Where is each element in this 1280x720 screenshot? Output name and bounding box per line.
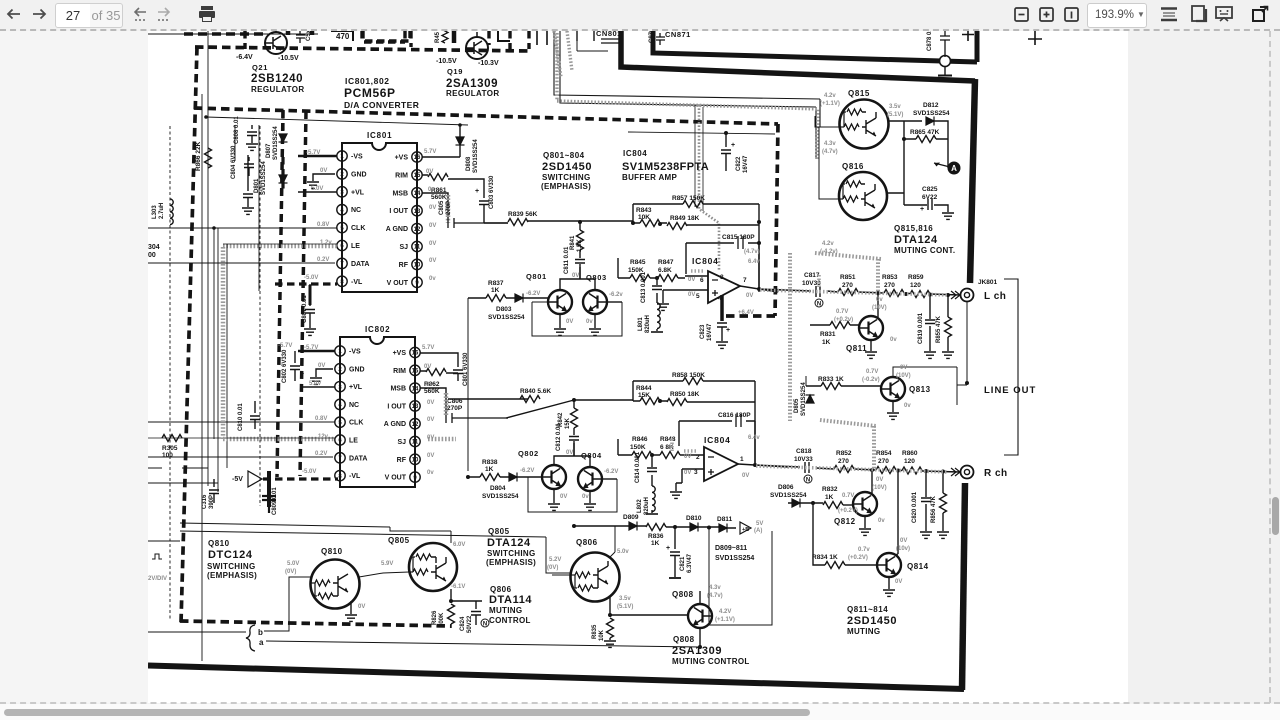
svg-text:-5.7V: -5.7V <box>278 343 292 349</box>
inner dashed vertical V1 <box>277 110 283 477</box>
emitter grounds <box>554 488 590 503</box>
routing box <box>528 477 617 512</box>
resistor R834 + base wire <box>825 562 845 569</box>
svg-text:(A): (A) <box>754 528 762 534</box>
capacitor C807 <box>305 284 315 328</box>
svg-text:1K: 1K <box>651 540 660 547</box>
svg-text:Q21: Q21 <box>252 63 268 72</box>
svg-text:(+1.1V): (+1.1V) <box>715 617 735 623</box>
resistor R839 56K <box>508 219 528 226</box>
transistor Q814 <box>877 553 901 577</box>
C814 column lower amp <box>651 455 653 513</box>
svg-text:5.2V: 5.2V <box>549 557 561 563</box>
transistor Q21 <box>265 29 287 54</box>
IC802 body <box>340 337 415 487</box>
C820 column <box>925 471 927 531</box>
D807 dashed column <box>281 111 284 191</box>
svg-text:-5.7V: -5.7V <box>304 345 318 351</box>
diode D803 <box>515 294 523 303</box>
pins IC802 <box>335 346 420 483</box>
svg-text:CLK: CLK <box>349 420 363 427</box>
resistor R844 <box>640 398 660 405</box>
svg-text:C825: C825 <box>922 186 938 193</box>
svg-text:3: 3 <box>694 469 698 476</box>
svg-text:-10.3V: -10.3V <box>478 60 499 67</box>
svg-text:0v: 0v <box>890 337 897 343</box>
node N <box>481 619 489 627</box>
svg-text:R866 22K: R866 22K <box>195 141 202 171</box>
R858 feedback wire lower <box>633 381 755 463</box>
connector JK801 L ch <box>961 289 974 302</box>
svg-text:R845: R845 <box>630 259 646 266</box>
svg-text:SVD1SS254: SVD1SS254 <box>482 493 519 500</box>
svg-text:MUTING CONT.: MUTING CONT. <box>894 246 955 255</box>
svg-text:0V: 0V <box>566 450 573 456</box>
input wires lower <box>676 455 704 491</box>
svg-text:5: 5 <box>696 293 700 300</box>
svg-text:3.5v: 3.5v <box>889 104 901 110</box>
svg-text:R841: R841 <box>570 235 576 250</box>
svg-text:DATA: DATA <box>351 261 369 268</box>
wire pin8 area <box>262 478 269 480</box>
diode D811 <box>719 524 727 533</box>
wire D812 to R865 column <box>904 121 948 168</box>
ground plus input <box>657 304 669 310</box>
svg-text:R839 56K: R839 56K <box>508 211 538 218</box>
svg-text:BUFFER AMP: BUFFER AMP <box>622 173 678 182</box>
svg-text:D806: D806 <box>778 484 794 491</box>
svg-text:N: N <box>817 302 821 308</box>
svg-text:6.4v: 6.4v <box>748 435 760 441</box>
svg-text:0v: 0v <box>904 403 911 409</box>
nested thin corner lines top center <box>554 31 820 159</box>
dual page icon <box>1192 6 1206 21</box>
svg-text:(4.7v): (4.7v) <box>744 249 760 255</box>
hatch at C805 <box>446 195 451 223</box>
svg-text:+: + <box>920 206 924 213</box>
svg-text:R855 47K: R855 47K <box>936 315 942 343</box>
right dashed border of shield going down and closing left <box>722 124 778 316</box>
svg-text:Q802: Q802 <box>518 449 539 458</box>
svg-text:Q811: Q811 <box>846 344 867 353</box>
resistor R846 <box>632 452 652 459</box>
svg-text:0.7v: 0.7v <box>858 547 870 553</box>
svg-text:R859: R859 <box>908 274 924 281</box>
svg-text:SVD1SS254: SVD1SS254 <box>913 110 950 117</box>
svg-text:RIM: RIM <box>393 368 406 375</box>
Q811 emitter ground <box>870 339 872 351</box>
digital transistor Q805 <box>409 543 457 591</box>
svg-text:a: a <box>259 638 264 647</box>
svg-text:0V: 0V <box>429 205 436 211</box>
resistor R866 22K vertical <box>205 148 212 168</box>
svg-text:0V: 0V <box>358 604 365 610</box>
capacitor C822 <box>721 133 731 171</box>
svg-text:GND: GND <box>351 171 367 178</box>
right border upper segment <box>970 79 975 283</box>
top dashed line 2 (shield top of D/A section) <box>194 108 778 124</box>
op-amp U-IC804a triangle <box>708 271 740 303</box>
svg-text:+: + <box>726 327 730 334</box>
wire pin16 +VS <box>422 156 460 158</box>
ground R835 <box>604 641 616 647</box>
collector rail <box>560 267 595 290</box>
voltage annotations (faint print) <box>278 93 911 623</box>
transistor Q802 <box>542 465 566 489</box>
svg-text:SVD1SS254: SVD1SS254 <box>473 139 479 173</box>
svg-text:+VL: +VL <box>351 189 365 196</box>
top dashed line 1 (regulator rail) <box>195 47 531 51</box>
svg-text:10K: 10K <box>638 214 650 221</box>
svg-text:1K: 1K <box>485 466 494 473</box>
svg-text:270: 270 <box>884 282 895 289</box>
svg-text:D809~811: D809~811 <box>715 545 747 552</box>
capacitor C814 <box>647 468 657 472</box>
wire pin15 RIM + resistor R862 <box>420 371 458 373</box>
svg-text:120: 120 <box>910 282 921 289</box>
svg-text:5: 5 <box>338 420 342 426</box>
svg-text:0v: 0v <box>586 319 593 325</box>
b wire <box>266 630 289 632</box>
Q806 emitter chain <box>610 597 689 617</box>
Q805 emitter chain <box>451 589 482 603</box>
svg-text:4.3v: 4.3v <box>709 585 721 591</box>
svg-text:R838: R838 <box>482 459 498 466</box>
svg-text:0V: 0V <box>746 293 753 299</box>
svg-text:6.8K: 6.8K <box>658 267 672 274</box>
ground L801 <box>651 331 663 333</box>
output wire Q815 <box>888 121 922 205</box>
R842 column <box>573 400 575 456</box>
svg-text:0V: 0V <box>429 241 436 247</box>
Q810 collector to Q805 base <box>359 572 409 577</box>
capacitor C805 series <box>448 218 508 228</box>
svg-text:Q806: Q806 <box>576 538 598 547</box>
thick dashed jog to IC802 pin8 <box>263 477 338 480</box>
svg-text:0V: 0V <box>560 494 567 500</box>
svg-text:C801 6V330: C801 6V330 <box>463 352 469 386</box>
svg-text:16V47: 16V47 <box>707 323 713 341</box>
hatch stub above C817 <box>817 275 821 289</box>
svg-text:R849 18K: R849 18K <box>670 215 700 222</box>
svg-text:L801: L801 <box>638 317 644 331</box>
svg-text:+B: +B <box>742 527 749 533</box>
svg-text:-VL: -VL <box>349 473 361 480</box>
svg-text:0v: 0v <box>428 187 435 193</box>
svg-text:5.0V: 5.0V <box>311 186 323 192</box>
transistor Q812 <box>853 492 877 516</box>
svg-text:SWITCHING: SWITCHING <box>207 562 255 571</box>
wire pin13 I OUT lower <box>420 388 446 413</box>
svg-text:0V: 0V <box>572 273 579 279</box>
svg-text:6.0V: 6.0V <box>453 542 465 548</box>
svg-text:4.2v: 4.2v <box>824 93 836 99</box>
C822 junction <box>724 131 728 135</box>
svg-text:+: + <box>666 545 670 552</box>
svg-text:16: 16 <box>414 155 421 161</box>
svg-text:A GND: A GND <box>384 421 406 428</box>
diode D801 <box>279 175 288 183</box>
svg-text:15K: 15K <box>638 392 650 399</box>
svg-text:-VL: -VL <box>351 279 363 286</box>
transistor Q804 <box>578 467 602 491</box>
zoom in <box>1040 8 1053 21</box>
transistor Q808 <box>688 604 712 628</box>
svg-text:R850 18K: R850 18K <box>670 391 700 398</box>
svg-text:C876 0.01: C876 0.01 <box>649 31 655 43</box>
svg-text:1: 1 <box>340 154 344 160</box>
svg-text:R45 1: R45 1 <box>435 31 441 43</box>
routing box <box>532 302 622 336</box>
capacitor C876 <box>656 33 665 45</box>
node N circle <box>804 475 812 483</box>
wire pin16 +VS right <box>420 353 458 361</box>
right border lower segment <box>962 483 965 690</box>
svg-text:R840 5.6K: R840 5.6K <box>520 388 551 395</box>
svg-text:C819 0.001: C819 0.001 <box>918 312 924 344</box>
wire pin1 -VS thick + C802 <box>298 350 335 353</box>
ground C821 <box>669 577 681 579</box>
output wire lower <box>738 421 788 467</box>
cap stub top right 1 <box>1028 31 1042 45</box>
output wire Q816 to C825 <box>887 193 948 212</box>
hatch stub left of minus input upper <box>691 269 703 273</box>
hatch overlay on R ch wire <box>756 466 948 472</box>
svg-text:1: 1 <box>740 456 744 463</box>
svg-text:LE: LE <box>349 438 358 445</box>
Q813 collector to line out <box>893 367 967 405</box>
svg-text:6V22: 6V22 <box>922 194 938 201</box>
capacitor C878 <box>940 31 950 57</box>
svg-text:(+0.2V): (+0.2V) <box>848 555 868 561</box>
svg-text:SJ: SJ <box>399 244 408 251</box>
svg-text:12v: 12v <box>318 434 329 440</box>
svg-text:270: 270 <box>878 458 889 465</box>
svg-text:(5.1V): (5.1V) <box>617 604 633 610</box>
svg-text:6: 6 <box>700 277 704 284</box>
svg-text:C804 6V330: C804 6V330 <box>231 145 237 179</box>
svg-text:DTA114: DTA114 <box>489 594 532 606</box>
svg-text:6.3V47: 6.3V47 <box>687 553 693 573</box>
left vertical bus wires <box>202 31 259 661</box>
svg-text:D803: D803 <box>496 306 512 313</box>
resistor R860 <box>902 467 922 474</box>
Q813 <box>881 377 905 401</box>
waveform mark <box>152 554 162 559</box>
svg-text:0V: 0V <box>318 363 325 369</box>
svg-text:C811 0.01: C811 0.01 <box>564 246 570 274</box>
ground pin2 <box>307 182 319 188</box>
svg-text:4.2v: 4.2v <box>822 241 834 247</box>
pin numbers lower op-amp <box>694 454 744 476</box>
junction <box>870 468 874 472</box>
svg-text:0v: 0v <box>582 494 589 500</box>
wire R845 R847 <box>618 258 685 278</box>
junction left <box>572 524 576 528</box>
svg-text:12: 12 <box>412 422 419 428</box>
svg-text:R832: R832 <box>822 486 838 493</box>
svg-text:+VL: +VL <box>349 384 363 391</box>
svg-text:4: 4 <box>338 403 342 409</box>
history back <box>135 8 146 16</box>
wire pin3 +VL <box>298 191 337 193</box>
label block Q815,816 <box>894 224 955 255</box>
main wire L ch <box>759 289 960 295</box>
junction <box>902 137 906 141</box>
svg-text:7: 7 <box>743 277 747 284</box>
capacitor C809 thick <box>262 479 276 513</box>
svg-text:R857 150K: R857 150K <box>672 195 705 202</box>
capacitor C801 <box>453 361 463 381</box>
svg-text:(10v): (10v) <box>896 546 910 552</box>
junction C821 <box>673 525 677 529</box>
svg-text:2SB1240: 2SB1240 <box>251 73 303 85</box>
svg-text:+VS: +VS <box>395 155 409 162</box>
svg-text:1K: 1K <box>491 287 500 294</box>
svg-text:LINE OUT: LINE OUT <box>984 385 1036 396</box>
resistor R859 <box>910 291 930 298</box>
svg-text:4.3v: 4.3v <box>824 141 836 147</box>
svg-text:(0V): (0V) <box>547 565 558 571</box>
junction <box>876 291 880 295</box>
svg-text:-5.0V: -5.0V <box>304 275 318 281</box>
wire pin1 -VS thick <box>298 155 337 158</box>
junction <box>458 123 462 127</box>
svg-text:LE: LE <box>351 243 360 250</box>
svg-text:C316: C316 <box>202 494 208 509</box>
svg-text:15K: 15K <box>565 417 571 429</box>
svg-text:R837: R837 <box>488 280 504 287</box>
svg-text:8: 8 <box>720 274 724 281</box>
svg-text:R833 1K: R833 1K <box>818 376 844 383</box>
diode D806 <box>792 499 800 508</box>
svg-text:JK801: JK801 <box>978 279 998 286</box>
wire stub CN801 <box>577 31 608 51</box>
svg-text:C824: C824 <box>460 616 466 631</box>
capacitor C804 + D801 column <box>244 157 254 176</box>
diode D809 <box>629 522 637 531</box>
Q810 base from b wire <box>264 577 311 631</box>
svg-text:Q810: Q810 <box>321 547 343 556</box>
svg-text:0V: 0V <box>427 435 434 441</box>
svg-text:R831: R831 <box>820 331 836 338</box>
svg-text:5.0V: 5.0V <box>309 381 321 387</box>
resistor R842 vertical <box>571 408 578 428</box>
svg-text:5.7V: 5.7V <box>424 149 436 155</box>
capacitor C816 <box>736 414 741 427</box>
capacitor C316 <box>209 479 219 503</box>
resistor R840 5.6K <box>520 396 540 403</box>
wire DATA pin7 to left edge <box>148 262 335 264</box>
svg-text:CONTROL: CONTROL <box>489 616 531 625</box>
svg-text:D809: D809 <box>623 514 639 521</box>
svg-text:1K: 1K <box>822 339 831 346</box>
junction <box>896 469 900 473</box>
digital transistor Q806 <box>571 553 620 602</box>
svg-text:IC804: IC804 <box>704 435 731 445</box>
junction <box>904 292 908 296</box>
svg-text:820uH: 820uH <box>645 315 651 333</box>
junction <box>204 115 208 119</box>
chevrons L <box>951 291 960 299</box>
svg-text:CN871: CN871 <box>665 31 691 39</box>
capacitor C802 <box>290 351 300 381</box>
inner dashed vertical V2 <box>300 111 306 476</box>
svg-text:Q808: Q808 <box>672 590 694 599</box>
resistor R845 <box>630 275 650 282</box>
node A <box>948 162 961 175</box>
svg-text:IC801,802: IC801,802 <box>345 76 390 86</box>
svg-text:C814 0.001: C814 0.001 <box>635 451 641 483</box>
bottom sheet border <box>148 666 964 690</box>
R841 column <box>579 222 581 279</box>
svg-text:DTA124: DTA124 <box>487 537 531 549</box>
svg-text:SWITCHING: SWITCHING <box>487 549 535 558</box>
brace b a <box>246 625 255 651</box>
svg-text:V OUT: V OUT <box>387 280 409 287</box>
Q808 collector stub <box>699 591 701 605</box>
svg-text:390P: 390P <box>209 495 215 509</box>
svg-text:L ch: L ch <box>984 291 1006 302</box>
svg-text:SV1M5238FPTA: SV1M5238FPTA <box>622 161 709 173</box>
svg-text:6: 6 <box>340 244 344 250</box>
svg-text:2SD1450: 2SD1450 <box>542 161 592 173</box>
printer <box>199 6 215 22</box>
svg-text:0v: 0v <box>878 518 885 524</box>
svg-text:R851: R851 <box>840 274 856 281</box>
svg-text:N: N <box>483 622 487 628</box>
svg-text:13: 13 <box>412 404 419 410</box>
wire chain <box>574 526 736 528</box>
capacitor C806 series <box>446 413 506 423</box>
svg-text:-6.4V: -6.4V <box>236 54 253 61</box>
svg-text:270: 270 <box>838 458 849 465</box>
svg-text:-10.5V: -10.5V <box>278 55 299 62</box>
resistor R841 vertical <box>577 230 584 250</box>
junction <box>658 399 662 403</box>
svg-text:MUTING: MUTING <box>847 627 880 636</box>
svg-text:0V: 0V <box>895 579 902 585</box>
svg-text:0V: 0V <box>684 454 691 460</box>
wire pin13 I OUT <box>422 193 448 218</box>
wires into brace <box>148 631 246 633</box>
dotted chain verticals left bus <box>170 126 260 621</box>
C816 feedback wire <box>679 421 755 446</box>
buffer triangle +B <box>740 522 751 534</box>
input wires <box>663 276 708 303</box>
svg-text:D811: D811 <box>717 516 733 523</box>
svg-text:REGULATOR: REGULATOR <box>446 89 500 98</box>
back arrow <box>8 10 45 19</box>
svg-text:820uH: 820uH <box>644 497 650 515</box>
svg-text:(+1.1V): (+1.1V) <box>820 101 840 107</box>
svg-text:2: 2 <box>340 172 344 178</box>
svg-text:Q801~804: Q801~804 <box>543 151 585 160</box>
svg-text:0.7V: 0.7V <box>836 309 848 315</box>
svg-text:Q805: Q805 <box>488 527 510 536</box>
svg-text:R847: R847 <box>658 259 674 266</box>
C819 column <box>929 295 931 351</box>
wire R846 R848 <box>618 439 687 455</box>
svg-text:6.4v: 6.4v <box>748 259 760 265</box>
svg-text:270: 270 <box>842 282 853 289</box>
svg-text:5.0V: 5.0V <box>287 561 299 567</box>
svg-text:100K: 100K <box>439 612 445 627</box>
svg-text:R846: R846 <box>632 436 648 443</box>
svg-text:11: 11 <box>412 440 419 446</box>
diode D804 <box>509 473 517 482</box>
svg-text:(EMPHASIS): (EMPHASIS) <box>486 558 536 567</box>
